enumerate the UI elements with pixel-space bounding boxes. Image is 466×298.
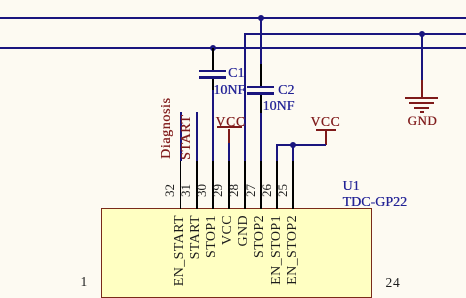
node: junction on second rail feeding C1: [210, 45, 216, 51]
pin name EN_STOP1: [269, 215, 285, 285]
power port VCC (left) stem: [228, 129, 230, 143]
pin 30 stub: [212, 161, 214, 209]
pin number 28: [226, 184, 242, 197]
node: junction pin25 on VCC wire: [290, 142, 296, 148]
node: junction on top rail feeding C2: [258, 15, 264, 21]
wire: VCC to pin 29: [228, 143, 230, 162]
pin 32 stub: [180, 161, 182, 209]
capacitor C2 top lead (black pin): [260, 64, 262, 86]
capacitor C2 designator: [278, 83, 294, 99]
pin name EN_START: [172, 215, 188, 286]
wire: vertical from top rail to C2: [260, 17, 262, 64]
power port VCC (right) stem: [325, 131, 327, 145]
ground label GND: [408, 113, 438, 129]
power port VCC (left) text: [216, 114, 246, 130]
capacitor C1 plates: [199, 70, 226, 73]
capacitor C1 bottom lead (black pin): [212, 79, 214, 90]
pin name VCC: [220, 215, 236, 245]
wire: down to pin 26: [276, 144, 278, 161]
capacitor C1 value 10NF: [213, 83, 245, 99]
pin number 26: [259, 184, 275, 197]
pin number 31: [178, 184, 194, 197]
net label START: [179, 115, 195, 160]
power port VCC (left) bar: [217, 126, 242, 128]
net label Diagnosis: [159, 97, 175, 158]
wire: C2 to pin 27: [260, 113, 262, 162]
wire: GND pin 28 vertical up to GND line: [244, 33, 246, 162]
wire: second rail STOP1 net y=48 full width: [0, 47, 466, 49]
wire: top rail STOP2 net y=18 full width: [0, 17, 466, 19]
wire: net Diagnosis vertical to pin 32: [180, 112, 182, 161]
pin name GND: [236, 215, 252, 247]
chip designator U1: [343, 179, 360, 195]
ground symbol bar4: [420, 111, 424, 113]
wire: C1 to pin 30: [212, 90, 214, 162]
pin 27 stub: [260, 161, 262, 209]
pin name EN_STOP2: [285, 215, 301, 285]
pin number 1 (left side pin): [81, 274, 88, 290]
pin number 29: [210, 184, 226, 197]
pin number 27: [243, 184, 259, 197]
wire: GND symbol vertical (blue part): [421, 33, 423, 80]
wire: GND horizontal line y=34: [244, 33, 466, 35]
ground symbol bar1: [405, 97, 439, 99]
chip type TDC-GP22: [343, 195, 408, 211]
wire: horizontal EN_STOP1/EN_STOP2 to VCC: [276, 144, 326, 146]
ground symbol bar2: [409, 102, 433, 104]
pin 28 stub: [244, 161, 246, 209]
pin number 24 (right side pin): [386, 275, 401, 291]
pin number 30: [194, 184, 210, 197]
wire: net START vertical to pin 31: [196, 112, 198, 161]
node: junction on GND line above GND symbol: [419, 31, 425, 37]
op chip U1 body TDC-GP22: [101, 208, 372, 298]
pin 26 stub: [276, 161, 278, 209]
capacitor C1 designator: [228, 66, 244, 82]
capacitor C1 top lead (black pin) from rail2: [212, 48, 214, 70]
pin number 25: [275, 184, 291, 197]
pin 31 stub: [196, 161, 198, 209]
pin name STOP2: [252, 215, 268, 258]
pin name STOP1: [204, 215, 220, 258]
wire: down to pin 25: [292, 144, 294, 161]
capacitor C2 bottom lead (black pin): [260, 95, 262, 113]
power port VCC (right) bar: [316, 129, 336, 131]
pin 29 stub: [228, 161, 230, 209]
ground symbol stem (maroon): [421, 80, 423, 97]
power port VCC (right) text: [311, 114, 341, 130]
pin name START: [188, 215, 204, 259]
pin 25 stub: [292, 161, 294, 209]
pin number 32: [162, 184, 178, 197]
capacitor C2 plates: [247, 86, 274, 89]
capacitor C2 value 10NF: [263, 99, 295, 115]
ground symbol bar3: [414, 107, 429, 109]
